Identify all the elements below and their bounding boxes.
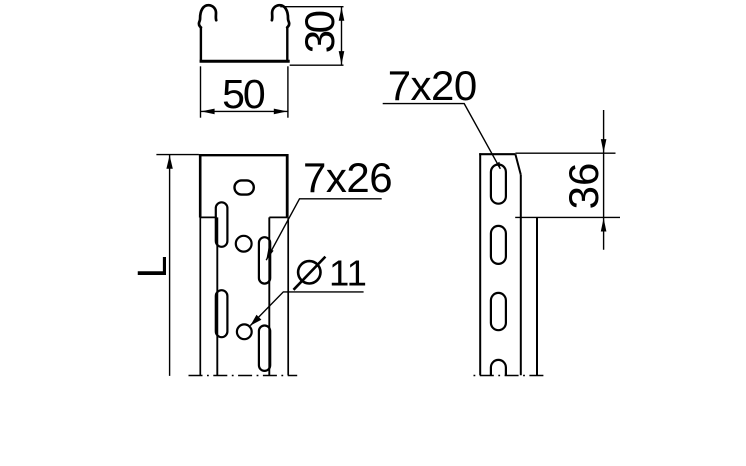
label O11 text (298, 261, 320, 283)
front view left step (200, 216, 216, 218)
side view top edge (479, 153, 515, 155)
side view top-right chamfer (515, 154, 520, 175)
front view outer left edge lower (thin) (199, 218, 201, 376)
slot 7x26 upper left (216, 202, 228, 247)
dimension 30: bottom arrowhead (339, 51, 345, 65)
label 7x20 leader arrowhead (496, 162, 501, 170)
label O11 leader shoulder (250, 292, 363, 326)
side view chain break line (472, 375, 545, 377)
dimension L: top extension line (156, 154, 199, 156)
dimension 50: dimension line (201, 110, 288, 112)
label 7x20 leader shoulder (383, 104, 501, 169)
side view slot 7x20 second (491, 226, 506, 264)
front view left fold line (216, 217, 218, 375)
slot 7x26 lower left (216, 290, 228, 337)
svg-text:L: L (129, 256, 175, 279)
front view top edge (thick) (199, 154, 289, 156)
dimension 50: extension lines (200, 66, 202, 117)
dimension 36: top extension line (515, 152, 615, 154)
section right wall (286, 27, 288, 63)
dimension 30: bottom extension line (290, 64, 344, 66)
section right hook curl (272, 5, 289, 27)
svg-text:50: 50 (222, 71, 265, 117)
side view slot 7x20 third (491, 293, 506, 330)
dimension 36: top arrowhead (points down) (601, 139, 607, 153)
dimension 30: dimension line (341, 7, 343, 65)
dimension L: top arrowhead (166, 155, 172, 169)
dimension 36: bottom arrowhead (points up) (601, 218, 607, 232)
front view chain break line (189, 375, 298, 377)
svg-text:30: 30 (296, 11, 343, 53)
side view right edge (520, 175, 522, 376)
front view right step (269, 216, 287, 218)
dimension 36: dimension line (603, 110, 605, 250)
side view inner far edge (536, 217, 538, 375)
round hole middle (O11) (236, 236, 252, 252)
side view slot 7x20 fourth (cut) (491, 360, 506, 375)
dimension 50: right arrowhead (274, 109, 288, 115)
side view slot 7x20 first (491, 165, 506, 204)
slot 7x26 lower right (259, 326, 270, 371)
front view outer right edge upper (thick) (286, 154, 289, 218)
dimension L: dimension line (169, 155, 171, 376)
dimension 30: top arrowhead (339, 7, 345, 20)
slot 7x26 upper right (259, 237, 270, 283)
label 7x26 leader shoulder (266, 199, 382, 260)
dimension 36: bottom extension line / step (515, 216, 620, 218)
svg-text:11: 11 (329, 252, 367, 293)
round hole lower (O11) (237, 324, 252, 339)
svg-text:7x20: 7x20 (388, 62, 477, 109)
svg-text:36: 36 (560, 163, 607, 210)
section bottom plate (thick) (200, 60, 290, 63)
front view outer right edge lower (thin) (287, 218, 289, 376)
front view right fold line (268, 217, 270, 375)
section left wall (200, 27, 202, 63)
label 7x26 leader arrowhead (266, 248, 273, 260)
section left hook curl (199, 5, 216, 27)
front view outer left edge upper (thick) (199, 154, 202, 218)
dimension 30: top extension line (280, 6, 343, 8)
dimension 50: left arrowhead (201, 109, 215, 115)
svg-text:7x26: 7x26 (303, 154, 392, 201)
side view left edge (479, 153, 481, 375)
label O11 leader arrowhead (250, 315, 261, 326)
oval hole top (235, 180, 254, 194)
